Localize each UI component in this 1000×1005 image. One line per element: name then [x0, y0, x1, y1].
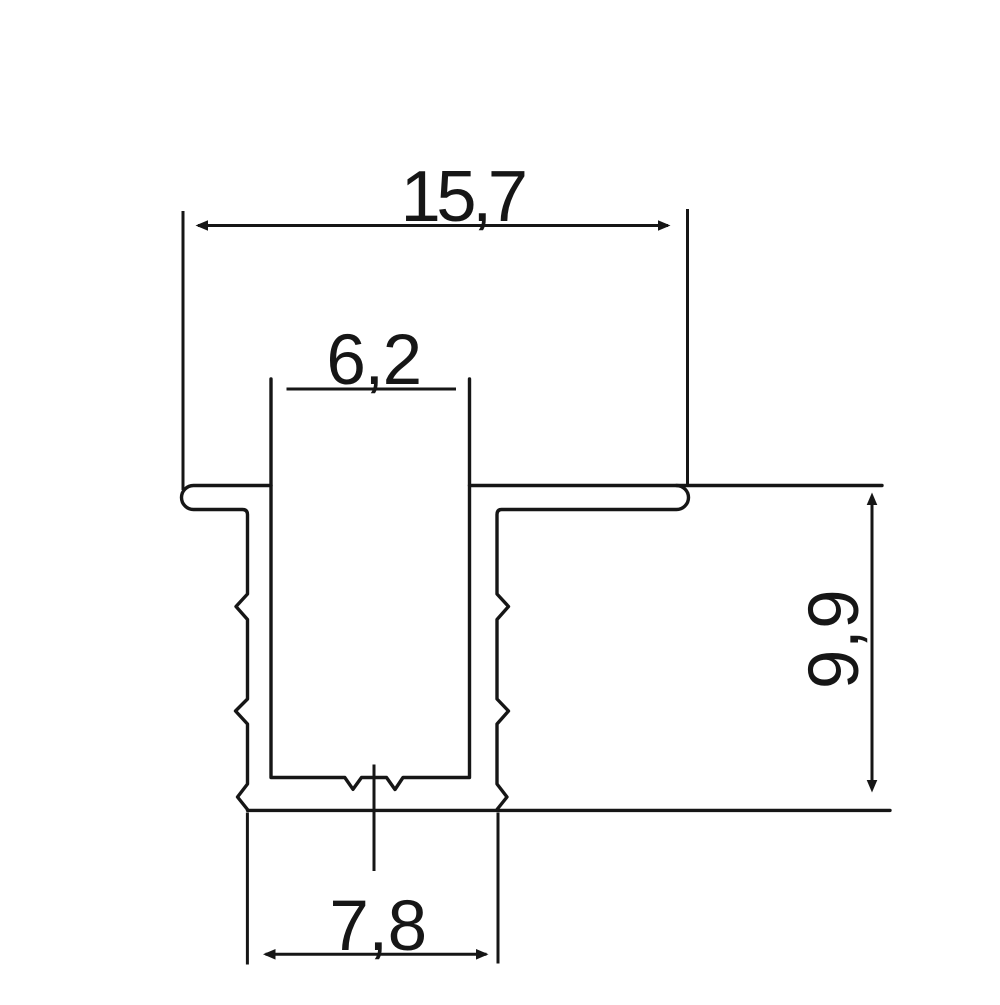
extension line right for 15,7: [686, 209, 689, 486]
profile channel interior: inner walls and serrated interior bottom: [271, 379, 470, 790]
dimension line 15,7: [198, 224, 668, 227]
profile flange top surface right segment (also 9,9 upper extension): [470, 484, 883, 487]
extension line left for 15,7: [182, 211, 185, 490]
svg-text:15,7: 15,7: [400, 156, 524, 237]
arrowhead 15,7 right: [658, 220, 671, 231]
dimension line 7,8: [266, 953, 487, 956]
extension line right for 7,8: [497, 813, 500, 964]
profile left flange and left outer wall with serration notches: [182, 486, 272, 810]
arrowhead 7,8 left: [263, 949, 276, 960]
centerline through bottom groove: [373, 765, 376, 872]
profile bottom exterior line (also 9,9 lower extension): [248, 809, 891, 812]
arrowhead 9,9 down: [867, 780, 878, 793]
svg-text:6,2: 6,2: [326, 321, 420, 400]
svg-text:7,8: 7,8: [329, 887, 426, 966]
arrowhead 7,8 right: [476, 949, 489, 960]
arrowhead 9,9 up: [867, 493, 878, 506]
svg-text:9,9: 9,9: [795, 589, 874, 689]
profile right outer wall with serration notches and right flange bottom with rounded end cap: [497, 486, 689, 810]
dimension line 9,9: [871, 496, 874, 789]
dimension line 6,2: [287, 388, 457, 391]
arrowhead 15,7 left: [196, 220, 209, 231]
extension line left for 7,8: [246, 813, 249, 965]
